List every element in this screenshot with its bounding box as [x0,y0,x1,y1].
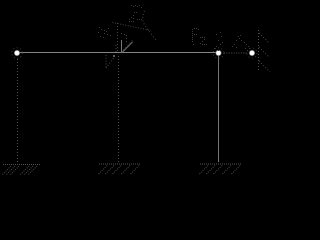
label text top row [131,5,142,13]
dot pair near stem [121,33,125,35]
label middle value text [214,32,223,51]
label right value text [232,35,250,51]
annotation curve from label [143,11,156,40]
wire dotted horizontal node B to node C [224,52,248,54]
ground earth symbol middle [98,164,141,175]
ground earth symbol left [2,165,40,176]
dotted short stem left [115,45,117,52]
wire dotted vertical from node A to ground [17,59,19,163]
dotted short stem right [126,35,128,44]
ground symbol top-center dotted hatch [124,40,134,51]
node A [12,48,23,59]
label text second row triangle [129,15,142,22]
ground symbol top-center solid stem [121,40,123,53]
label subscript 2 [200,37,207,45]
ground symbol top-center solid hatch [122,42,133,53]
annotation check mark below wire [106,55,115,68]
label V1 left of component [98,27,111,38]
label R2 right side letter F [192,28,199,45]
dotted stem above junction [117,23,119,52]
ground earth symbol right [199,164,242,175]
node B [213,48,224,59]
wire solid vertical from node B to ground [218,53,220,162]
wire main horizontal net [17,52,218,54]
node C [247,48,257,58]
wire dotted vertical mid junction to ground [118,56,120,162]
chassis ground right edge [259,30,271,72]
annotation leader line shallow [113,23,152,31]
